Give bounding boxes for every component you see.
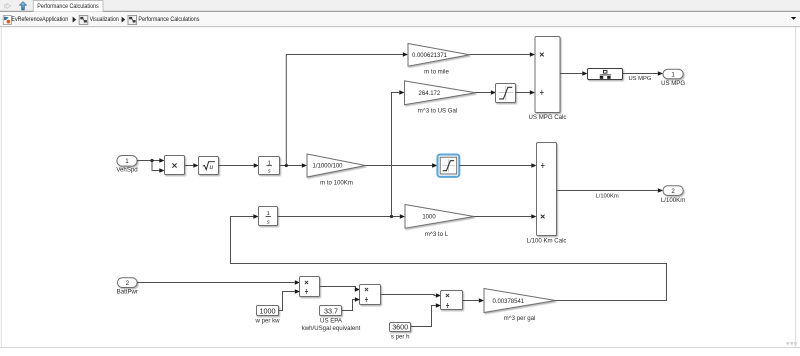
wire integrator1 to gain m-to-100Km with branch up to m-to-mile — [280, 55, 403, 166]
constant 3600 (s per h) — [390, 323, 411, 341]
arrowhead into integrator2 — [253, 214, 258, 219]
junction dot — [150, 159, 153, 162]
svg-text:US MPG: US MPG — [629, 76, 652, 82]
product2 block — [360, 285, 381, 305]
inport 2 BattPwr — [117, 278, 138, 296]
arrowhead into US MPG Calc divide — [530, 90, 535, 95]
svg-text:US EPA: US EPA — [320, 317, 343, 324]
svg-text:L/100Km: L/100Km — [661, 197, 685, 204]
arrowhead into L/100 Km Calc divide — [531, 163, 536, 168]
arrowhead into saturation 1 — [491, 90, 496, 95]
outport 2 L/100Km — [661, 186, 685, 204]
wire product to sqrt — [185, 165, 194, 167]
arrowhead into integrator1 — [254, 163, 259, 168]
wire m-to-mile to US MPG Calc — [470, 54, 530, 56]
arrowhead into gain m^3 per gal — [479, 298, 484, 303]
svg-text:US MPG Calc: US MPG Calc — [529, 114, 567, 121]
arrowhead into product in2 — [159, 168, 164, 173]
wire sqrt to integrator1 — [219, 165, 254, 167]
wire L/100 Km Calc to outport 2 — [557, 190, 658, 192]
wire 33.7 to product2 divide — [342, 300, 355, 311]
canvas bottom border — [0, 347, 800, 348]
breadcrumb subsystem icon 2 — [128, 16, 137, 25]
wire 264.172 to saturation — [476, 92, 491, 94]
svg-text:m to 100Km: m to 100Km — [320, 180, 353, 187]
active tab — [33, 1, 103, 12]
gain m^3 to US Gal (264.172) — [405, 81, 476, 114]
resize grip — [787, 342, 797, 345]
constant 33.7 (US EPA) — [302, 306, 361, 333]
svg-text:VehSpd: VehSpd — [116, 167, 137, 174]
gain m^3 per gal (0.00378541) — [484, 289, 556, 322]
wire BattPwr to product1 — [137, 282, 295, 284]
wire m-to-100Km to selected saturation — [366, 165, 433, 167]
arrowhead into gain m to 100Km — [302, 163, 307, 168]
svg-text:m^3 to L: m^3 to L — [425, 231, 449, 238]
outport 1 US MPG — [661, 69, 685, 87]
svg-text:m^3 to US Gal: m^3 to US Gal — [418, 107, 457, 114]
arrowhead into product in1 — [159, 158, 164, 163]
svg-text:0.000621371: 0.000621371 — [412, 53, 448, 59]
gain m to mile (0.000621371) — [408, 44, 470, 76]
integrator 1 (1/s) — [259, 157, 280, 175]
breadcrumb overflow dropdown chevron — [791, 17, 797, 20]
product block (v x v) — [165, 156, 185, 175]
svg-text:Visualization: Visualization — [90, 16, 119, 23]
wire icon block to outport US MPG — [623, 73, 658, 75]
breadcrumb subsystem icon 1 — [79, 16, 88, 25]
arrowhead into icon block — [582, 71, 587, 76]
svg-text:2: 2 — [671, 188, 675, 195]
arrowhead into sqrt — [193, 163, 198, 168]
saturation block 2 (selected) — [438, 155, 460, 177]
wire 3600 to product3 divide — [411, 306, 436, 327]
svg-text:u: u — [210, 164, 214, 171]
junction dot at 1000 gain branch — [390, 215, 393, 218]
arrowhead into US MPG Calc x — [530, 52, 535, 57]
up nav arrow (blue) — [19, 2, 26, 10]
US MPG Calc divide block — [529, 37, 567, 122]
arrowhead into product3 times — [436, 293, 441, 298]
svg-text:33.7: 33.7 — [324, 306, 338, 315]
svg-text:m^3 per gal: m^3 per gal — [504, 315, 536, 322]
svg-text:2: 2 — [126, 280, 130, 287]
svg-text:1/1000/100: 1/1000/100 — [312, 164, 343, 170]
wire product3 to gain m^3 per gal — [463, 300, 479, 302]
wire product1 to product2 — [320, 287, 356, 290]
product3 block — [441, 291, 463, 310]
return wire gain output up-and-left to integrator2 input — [231, 217, 667, 301]
svg-text:1: 1 — [125, 158, 129, 165]
arrowhead into product2 divide — [355, 297, 360, 302]
svg-text:EvReferenceApplication: EvReferenceApplication — [11, 16, 68, 23]
forward nav arrow (disabled grey) — [4, 3, 10, 8]
arrowhead into product1 divide — [295, 289, 300, 294]
arrowhead into outport 1 — [658, 71, 663, 76]
arrowhead into gain m to mile — [403, 52, 408, 57]
breadcrumb model icon — [3, 16, 11, 25]
svg-text:m to mile: m to mile — [424, 69, 449, 76]
inport 1 VehSpd — [116, 156, 137, 174]
integrator 2 (1/s) — [259, 207, 278, 226]
svg-text:L/100 Km Calc: L/100 Km Calc — [527, 238, 567, 245]
junction dot after integrator1 — [285, 164, 288, 167]
arrowhead into saturation 2 — [432, 163, 437, 168]
arrowhead into product1 times — [295, 280, 300, 285]
wire 1000 const to product1 divide — [279, 292, 295, 311]
arrowhead into 1000 gain — [400, 214, 405, 219]
svg-text:US MPG: US MPG — [661, 80, 685, 87]
tab bar background — [0, 0, 800, 12]
arrowhead into outport 2 — [658, 188, 663, 193]
wire 1000 gain to L/100 Km Calc — [474, 216, 531, 218]
wire saturation1 to US MPG Calc — [516, 92, 530, 94]
constant 1000 (w per kw) — [254, 306, 280, 325]
wire US MPG Calc to display icon block — [560, 73, 582, 75]
svg-text:0.00378541: 0.00378541 — [492, 299, 524, 305]
breadcrumb bar background — [0, 12, 800, 26]
wire saturation2 to L/100 Km Calc — [459, 165, 531, 167]
breadcrumb separator 1 — [73, 17, 77, 23]
canvas right border — [794, 27, 797, 347]
svg-text:1000: 1000 — [422, 215, 436, 221]
svg-text:s: s — [267, 220, 270, 226]
wire integrator2 out to 1000 gain with branch up to 264.172 gain — [278, 93, 400, 217]
svg-text:BattPwr: BattPwr — [117, 289, 138, 296]
sqrt block U — [199, 157, 219, 175]
wire product2 to product3 — [381, 295, 436, 296]
svg-text:3600: 3600 — [392, 323, 408, 332]
svg-text:Performance Calculations: Performance Calculations — [37, 3, 99, 10]
canvas left border — [0, 27, 3, 347]
svg-text:1000: 1000 — [260, 307, 276, 316]
svg-text:Performance Calculations: Performance Calculations — [138, 16, 200, 23]
gain m^3 to L (1000) — [405, 205, 474, 239]
arrowhead into L/100 Km Calc times — [531, 214, 536, 219]
saturation block 1 — [496, 84, 516, 103]
wire VehSpd to product (with branch) — [137, 161, 160, 171]
svg-text:s: s — [268, 169, 271, 175]
tab bar bottom separator line — [0, 11, 800, 12]
arrowhead into product2 times — [355, 287, 360, 292]
breadcrumb separator 2 — [122, 17, 126, 23]
signal hierarchy icon block — [588, 69, 623, 80]
svg-text:s per h: s per h — [391, 333, 410, 340]
svg-text:1: 1 — [671, 72, 675, 79]
L/100 Km Calc divide block — [527, 143, 567, 245]
svg-text:kwh/USgal equivalent: kwh/USgal equivalent — [302, 325, 361, 332]
arrowhead into product3 divide — [436, 303, 441, 308]
gain m to 100Km (1/1000/100) — [307, 154, 366, 187]
svg-text:w per kw: w per kw — [254, 317, 280, 324]
breadcrumb bottom border / canvas top border — [0, 26, 800, 27]
svg-text:264.172: 264.172 — [419, 91, 441, 97]
product1 block — [300, 277, 320, 297]
arrowhead into 264.172 gain — [399, 90, 404, 95]
svg-text:L/100Km: L/100Km — [596, 193, 619, 199]
